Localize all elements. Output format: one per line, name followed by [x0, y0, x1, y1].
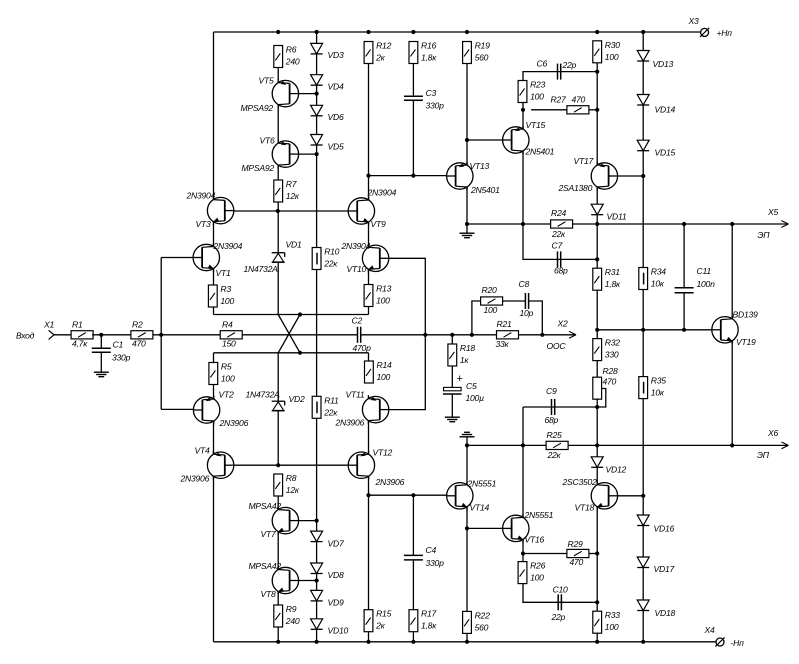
wire: [277, 262, 279, 314]
svg-text:R27: R27: [551, 95, 567, 105]
wire: [213, 353, 215, 363]
wire: [522, 554, 524, 562]
wire: [153, 334, 220, 336]
junction: [276, 640, 280, 644]
svg-text:100µ: 100µ: [466, 393, 485, 403]
resistor R16: [409, 41, 437, 64]
svg-text:1,8к: 1,8к: [605, 279, 621, 289]
wire: [542, 334, 575, 336]
wire: [213, 423, 215, 454]
svg-text:22к: 22к: [323, 407, 338, 417]
wire: [277, 211, 279, 253]
wire: [316, 270, 318, 397]
transistor VT18: [562, 477, 618, 513]
svg-text:X1: X1: [43, 320, 54, 330]
capacitor C3: [404, 88, 444, 111]
svg-text:R35: R35: [651, 376, 666, 386]
svg-text:MPSA92: MPSA92: [241, 103, 274, 113]
resistor R8: [274, 473, 300, 496]
svg-text:VT17: VT17: [574, 156, 595, 166]
capacitor C6: [537, 59, 577, 80]
svg-text:R1: R1: [72, 320, 83, 330]
junction: [595, 443, 599, 447]
wire: [412, 64, 414, 97]
svg-text:100: 100: [220, 296, 234, 306]
capacitor C1: [92, 340, 131, 363]
wire: [731, 341, 733, 446]
wire: [316, 542, 318, 563]
resistor R30: [593, 40, 620, 63]
wire: [596, 467, 598, 485]
diode VD9: [311, 590, 344, 607]
transistor VT15: [503, 120, 555, 156]
svg-text:R8: R8: [286, 473, 297, 483]
resistor R28: [593, 366, 618, 399]
svg-text:C9: C9: [546, 386, 557, 396]
wire: [642, 105, 644, 140]
junction: [470, 333, 474, 337]
diode VD12: [591, 457, 626, 475]
wire: [642, 61, 644, 95]
wire: [467, 139, 503, 141]
wire: [213, 307, 215, 315]
diode VD10: [311, 619, 349, 636]
junction: [465, 30, 469, 34]
junction: [423, 333, 427, 337]
svg-text:1N4732A: 1N4732A: [246, 390, 281, 400]
transistor VT1: [193, 241, 242, 278]
svg-text:100: 100: [605, 52, 619, 62]
svg-text:R25: R25: [547, 430, 562, 440]
wire: [277, 68, 279, 81]
junction: [315, 30, 319, 34]
wire: [467, 444, 787, 446]
transistor VT7: [249, 501, 299, 539]
wire: [299, 153, 317, 155]
wire: [234, 210, 348, 212]
svg-text:2N3906: 2N3906: [219, 418, 249, 428]
wire: [213, 269, 215, 285]
transistor VT17: [558, 156, 618, 193]
wire: [161, 408, 193, 410]
svg-text:VD8: VD8: [328, 570, 344, 580]
svg-text:C11: C11: [697, 266, 712, 276]
svg-text:12к: 12к: [286, 485, 300, 495]
svg-text:MPSA42: MPSA42: [249, 561, 282, 571]
wire: [523, 224, 597, 259]
svg-text:68p: 68p: [554, 265, 568, 275]
svg-text:+: +: [457, 373, 463, 385]
wire: [368, 222, 370, 247]
svg-text:R31: R31: [605, 267, 620, 277]
svg-text:VD11: VD11: [607, 212, 627, 222]
svg-text:1,8к: 1,8к: [421, 621, 437, 631]
svg-text:2N3904: 2N3904: [186, 191, 216, 201]
svg-text:VT3: VT3: [196, 219, 211, 229]
svg-text:VT11: VT11: [346, 389, 365, 399]
wire: [100, 335, 102, 348]
junction: [595, 405, 599, 409]
diode VD7: [311, 531, 345, 548]
wire: [277, 165, 279, 180]
wire: [277, 105, 279, 141]
wire: [368, 307, 370, 315]
transistor VT2: [193, 390, 248, 429]
svg-text:R10: R10: [324, 247, 339, 257]
wire crossover: [278, 315, 300, 353]
svg-text:1,8к: 1,8к: [421, 53, 437, 63]
wire: [618, 495, 644, 497]
transistor VT4: [180, 446, 234, 484]
resistor R3: [208, 284, 234, 307]
wire: [522, 103, 524, 110]
svg-text:VT4: VT4: [195, 446, 210, 456]
wire: [160, 258, 162, 410]
wire: [642, 568, 644, 601]
svg-text:2N5401: 2N5401: [470, 185, 500, 195]
capacitor C9: [545, 386, 559, 425]
svg-text:330: 330: [605, 350, 619, 360]
svg-text:330p: 330p: [112, 353, 131, 363]
transistor VT12: [348, 447, 404, 486]
svg-text:R15: R15: [376, 609, 391, 619]
junction: [99, 333, 103, 337]
wire: [466, 187, 468, 224]
wire: [214, 31, 701, 33]
svg-text:VD15: VD15: [655, 147, 676, 157]
svg-text:X2: X2: [557, 319, 568, 329]
svg-text:C8: C8: [519, 279, 530, 289]
junction: [682, 222, 686, 226]
svg-text:22p: 22p: [551, 612, 566, 622]
wire: [642, 32, 644, 51]
wire: [213, 32, 215, 199]
junction: [465, 222, 469, 226]
resistor R33: [593, 610, 620, 633]
svg-text:2N3906: 2N3906: [180, 473, 210, 483]
resistor R23: [518, 80, 545, 103]
junction: [298, 312, 302, 316]
wire: [529, 301, 543, 335]
svg-text:R26: R26: [530, 561, 545, 571]
ground: [94, 372, 109, 377]
junction: [276, 209, 280, 213]
wire: [683, 224, 685, 288]
resistor R18: [448, 343, 475, 366]
svg-text:100: 100: [221, 374, 235, 384]
resistor R25: [546, 430, 568, 460]
wire: [597, 329, 712, 331]
resistor R2: [131, 320, 153, 349]
svg-text:VT12: VT12: [373, 447, 393, 457]
junction: [276, 463, 280, 467]
wire: [451, 394, 453, 417]
junction: [450, 333, 454, 337]
resistor R5: [209, 362, 235, 385]
label Вход: [16, 331, 35, 341]
svg-text:X5: X5: [767, 207, 778, 217]
ground: [460, 432, 475, 437]
wire: [54, 334, 72, 336]
capacitor C4: [404, 545, 444, 568]
svg-text:R2: R2: [132, 320, 143, 330]
wire: [596, 110, 598, 165]
wire: [642, 176, 644, 268]
junction: [641, 494, 645, 498]
terminal X2: [547, 319, 577, 351]
wire: [522, 110, 524, 129]
svg-text:VT7: VT7: [261, 529, 277, 539]
junction: [315, 92, 319, 96]
wire: [316, 54, 318, 75]
wire: [214, 641, 716, 643]
wire: [731, 224, 733, 319]
capacitor C5: [443, 373, 484, 403]
transistor VT19: [712, 309, 758, 347]
junction: [366, 493, 370, 497]
svg-text:150: 150: [222, 339, 236, 349]
wire: [368, 353, 370, 361]
wire: [531, 109, 567, 111]
wire: [589, 553, 597, 555]
diode VD8: [311, 563, 344, 580]
diode VD15: [637, 140, 675, 157]
resistor R4: [220, 320, 242, 349]
terminal X5: [758, 207, 789, 240]
wire: [277, 532, 279, 568]
svg-text:100: 100: [530, 573, 544, 583]
wire: [523, 553, 567, 555]
svg-text:R28: R28: [603, 366, 618, 376]
transistor VT11: [335, 389, 389, 427]
wire: [596, 215, 598, 224]
wire: [451, 366, 453, 387]
transistor VT16: [503, 510, 554, 545]
wire: [316, 601, 318, 619]
wire: [369, 175, 447, 177]
svg-text:C5: C5: [466, 381, 477, 391]
resistor R6: [274, 45, 300, 68]
wire: [466, 633, 468, 641]
svg-text:VD4: VD4: [328, 82, 344, 92]
svg-text:10p: 10p: [520, 308, 534, 318]
wire: [316, 145, 318, 248]
svg-text:1к: 1к: [460, 355, 470, 365]
junction: [315, 578, 319, 582]
junction: [595, 70, 599, 74]
wire: [161, 257, 193, 259]
wire: [412, 560, 414, 610]
wire: [451, 335, 453, 344]
wire: [466, 224, 468, 233]
wire: [596, 554, 598, 603]
svg-text:VT13: VT13: [470, 161, 490, 171]
terminal X3: [688, 16, 733, 38]
svg-text:Вход: Вход: [16, 331, 35, 341]
svg-text:100: 100: [484, 305, 498, 315]
connector X1: [43, 320, 54, 340]
svg-text:C4: C4: [426, 545, 437, 555]
svg-text:R23: R23: [530, 80, 545, 90]
svg-text:ЭП: ЭП: [757, 450, 770, 460]
svg-text:R11: R11: [324, 395, 339, 405]
wire: [299, 93, 317, 95]
svg-text:22к: 22к: [551, 229, 566, 239]
wire: [368, 64, 370, 201]
junction: [595, 600, 599, 604]
svg-text:22к: 22к: [547, 450, 562, 460]
resistor R20: [481, 285, 503, 315]
wire: [467, 527, 503, 529]
wire: [596, 633, 598, 642]
svg-text:C3: C3: [426, 88, 437, 98]
wire: [316, 629, 318, 642]
svg-text:2к: 2к: [375, 621, 386, 631]
wire: [92, 334, 131, 336]
junction: [595, 640, 599, 644]
wire: [596, 507, 598, 554]
wire: [452, 334, 496, 336]
svg-text:C2: C2: [352, 315, 363, 325]
resistor R15: [364, 609, 391, 632]
svg-text:470: 470: [572, 95, 586, 105]
wire: [412, 100, 414, 175]
svg-text:VT2: VT2: [219, 390, 234, 400]
wire: [213, 224, 215, 247]
svg-text:X4: X4: [704, 625, 715, 635]
svg-text:VD1: VD1: [286, 240, 302, 250]
svg-text:R33: R33: [605, 610, 620, 620]
svg-text:VT9: VT9: [371, 219, 386, 229]
junction: [315, 152, 319, 156]
svg-text:VD16: VD16: [654, 524, 675, 534]
svg-text:VT16: VT16: [525, 535, 545, 545]
zener diode VD2: [246, 390, 305, 411]
wire: [642, 496, 644, 515]
svg-text:VD2: VD2: [289, 394, 305, 404]
svg-text:100n: 100n: [697, 279, 716, 289]
svg-text:VD12: VD12: [606, 465, 627, 475]
resistor R31: [593, 267, 621, 290]
resistor R27: [551, 95, 589, 114]
svg-text:MPSA42: MPSA42: [249, 501, 282, 511]
svg-text:R16: R16: [421, 41, 436, 51]
svg-text:MPSA92: MPSA92: [242, 163, 275, 173]
resistor R26: [518, 561, 545, 584]
wire: [368, 269, 370, 284]
diode VD17: [637, 557, 675, 574]
junction: [540, 333, 544, 337]
svg-text:2N3904: 2N3904: [213, 241, 243, 251]
svg-text:C10: C10: [553, 585, 568, 595]
svg-text:VD14: VD14: [655, 104, 676, 114]
svg-text:330p: 330p: [426, 101, 445, 111]
junction: [465, 526, 469, 530]
wire: [234, 464, 348, 466]
resistor R35: [639, 376, 666, 399]
wire: [277, 411, 279, 465]
wire: [683, 293, 685, 330]
wire: [596, 361, 598, 378]
resistor R24: [551, 208, 573, 239]
svg-text:VT14: VT14: [470, 503, 490, 513]
resistor R29: [567, 539, 589, 567]
junction: [298, 351, 302, 355]
wire: [389, 258, 426, 409]
resistor R11: [312, 395, 339, 418]
terminal X4: [704, 625, 745, 648]
wire: [214, 352, 369, 354]
junction: [411, 640, 415, 644]
svg-text:1N4732A: 1N4732A: [244, 264, 279, 274]
svg-text:560: 560: [475, 53, 489, 63]
wire: [642, 399, 644, 496]
junction: [595, 30, 599, 34]
diode VD5: [311, 135, 344, 152]
junction: [641, 30, 645, 34]
svg-text:VD3: VD3: [328, 50, 344, 60]
svg-text:240: 240: [285, 57, 300, 67]
wire: [299, 520, 317, 522]
wire: [277, 353, 279, 401]
diode VD14: [637, 95, 675, 115]
wire: [466, 64, 468, 165]
svg-text:4,7к: 4,7к: [72, 339, 88, 349]
svg-text:R5: R5: [221, 362, 232, 372]
svg-text:VD5: VD5: [328, 141, 344, 151]
junction: [465, 138, 469, 142]
wire: [618, 175, 644, 177]
resistor R34: [639, 267, 666, 290]
capacitor C7: [552, 241, 569, 276]
svg-text:100: 100: [377, 372, 391, 382]
wire: [368, 476, 370, 609]
svg-text:R19: R19: [475, 41, 490, 51]
svg-text:VD18: VD18: [655, 608, 676, 618]
wire: [316, 574, 318, 591]
wire: [596, 602, 598, 611]
wire: [466, 507, 468, 611]
wire: [596, 187, 598, 204]
svg-text:2N5551: 2N5551: [524, 510, 554, 520]
wire: [467, 223, 787, 225]
wire: [596, 445, 598, 456]
wire: [596, 72, 598, 110]
diode VD16: [637, 515, 674, 534]
wire: [472, 301, 481, 335]
wire: [523, 406, 597, 408]
wire: [522, 407, 524, 445]
svg-text:VD6: VD6: [328, 112, 344, 122]
svg-text:470p: 470p: [353, 343, 372, 353]
resistor R9: [274, 604, 300, 627]
svg-text:VT10: VT10: [347, 264, 367, 274]
wire: [412, 495, 414, 555]
junction: [366, 174, 370, 178]
svg-text:12к: 12к: [286, 191, 300, 201]
junction: [641, 328, 645, 332]
svg-text:BD139: BD139: [733, 309, 758, 319]
svg-text:R34: R34: [651, 267, 666, 277]
wire: [277, 202, 279, 211]
junction: [641, 174, 645, 178]
svg-text:R20: R20: [482, 285, 497, 295]
svg-text:X3: X3: [688, 16, 699, 26]
svg-text:10к: 10к: [651, 388, 665, 398]
wire: [214, 314, 369, 316]
svg-text:VT8: VT8: [261, 589, 276, 599]
junction: [315, 519, 319, 523]
